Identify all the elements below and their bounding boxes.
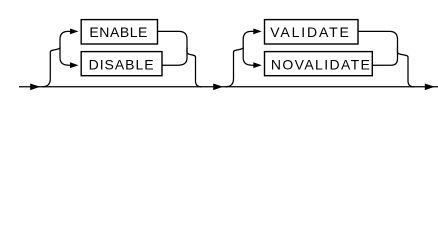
- box ENABLE: [81, 20, 157, 44]
- arrow into ENABLE: [70, 29, 79, 35]
- wire takeoff riser group 2: [226, 31, 255, 86]
- svg-text:VALIDATE: VALIDATE: [270, 24, 349, 40]
- box NOVALIDATE: [265, 52, 373, 76]
- wire DISABLE exit hook: [162, 48, 187, 66]
- wire hook to NOVALIDATE row: [243, 48, 254, 66]
- svg-text:DISABLE: DISABLE: [89, 57, 154, 73]
- arrow into NOVALIDATE: [253, 62, 261, 68]
- wire takeoff riser group 1: [42, 31, 71, 86]
- wire hook to DISABLE row: [60, 48, 71, 66]
- arrow main end: [425, 84, 435, 91]
- arrow into VALIDATE: [253, 29, 261, 35]
- wire VALIDATE exit: [358, 31, 414, 86]
- wire ENABLE exit: [158, 31, 202, 86]
- arrow main middle: [213, 84, 223, 91]
- box VALIDATE: [265, 20, 359, 44]
- arrow main start: [30, 84, 40, 91]
- svg-text:NOVALIDATE: NOVALIDATE: [271, 57, 370, 73]
- svg-text:ENABLE: ENABLE: [89, 24, 147, 40]
- wire main line: [19, 86, 438, 88]
- box DISABLE: [81, 52, 162, 76]
- arrow into DISABLE: [70, 62, 79, 68]
- wire NOVALIDATE exit hook: [372, 48, 397, 66]
